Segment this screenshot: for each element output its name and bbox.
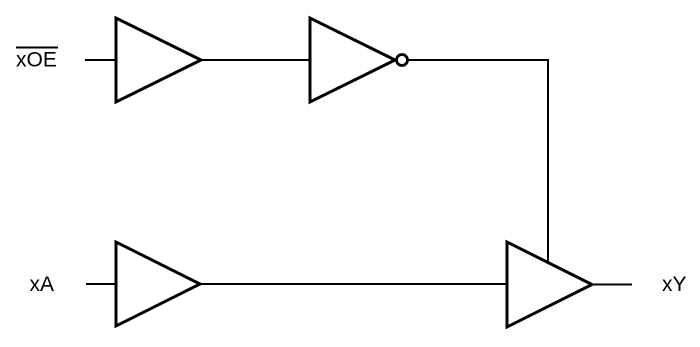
inverter U2 [310, 18, 395, 102]
buffer U1 [116, 18, 201, 102]
svg-text:xY: xY [662, 273, 687, 296]
wire xA input [86, 283, 117, 285]
buffer U3 [116, 242, 200, 326]
wire U1 to U2 [201, 59, 311, 61]
wire enable horizontal [409, 59, 549, 61]
wire U3 to U4 [200, 283, 508, 285]
wire xY output [592, 284, 632, 286]
svg-text:xOE: xOE [16, 49, 57, 72]
wire xOE input [85, 59, 117, 61]
inverter bubble [397, 55, 408, 66]
tri-state buffer U4 [507, 242, 592, 327]
svg-text:xA: xA [30, 273, 55, 296]
node xOE label [16, 48, 58, 72]
wire enable vertical [547, 59, 549, 262]
